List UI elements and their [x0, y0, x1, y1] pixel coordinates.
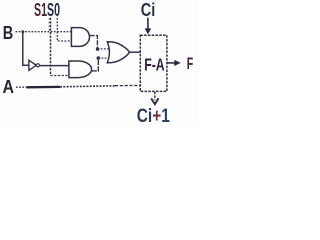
inverter (NOT gate): [29, 60, 36, 70]
wire OR gate input 1: [98, 48, 111, 50]
junction dot AND1/OR input 1: [96, 47, 100, 51]
scan texture ticks on S1 line: [49, 19, 51, 30]
wire S0 vertical line: [56, 18, 58, 32]
wire inverter output to AND2: [40, 65, 69, 67]
wire B branch vertical to inverter: [23, 32, 29, 66]
AND gate 1 (top): [71, 28, 89, 47]
inverter bubble: [36, 64, 39, 67]
svg-text:A: A: [3, 77, 15, 97]
svg-text:Ci: Ci: [141, 0, 156, 20]
Ci input arrow into box top: [147, 18, 149, 29]
svg-text:F-A: F-A: [144, 55, 165, 75]
wire A horizontal input (dotted lead): [16, 86, 27, 88]
svg-text:Ci+1: Ci+1: [137, 106, 170, 127]
AND gate 2 (bottom): [69, 61, 92, 78]
wire S1 vertical line: [50, 18, 52, 76]
F output arrow from box right: [167, 62, 175, 64]
OR gate: [107, 42, 129, 63]
wire A horizontal input (dotted middle): [60, 86, 115, 87]
Ci+1 output arrow below box: [154, 92, 156, 100]
wire A horizontal input (dashed tail to box): [115, 84, 140, 86]
wire OR output to F-A box: [130, 51, 141, 53]
svg-text:S1S0: S1S0: [34, 0, 60, 20]
wire S0 jog to AND1 input: [57, 32, 71, 41]
full adder box F-A: [140, 35, 167, 91]
wire S1 horizontal to AND2 input: [51, 75, 69, 77]
wire OR gate input 2: [98, 57, 109, 59]
junction dot on B wire: [21, 30, 24, 33]
svg-text:B: B: [3, 22, 14, 43]
wire B horizontal input: [16, 31, 72, 33]
junction dot AND2/OR input 2: [97, 56, 101, 60]
wire AND2 output: [92, 58, 99, 71]
wire AND1 output: [90, 36, 98, 49]
wire A horizontal input (thick segment): [27, 86, 61, 89]
svg-text:F: F: [187, 55, 194, 73]
